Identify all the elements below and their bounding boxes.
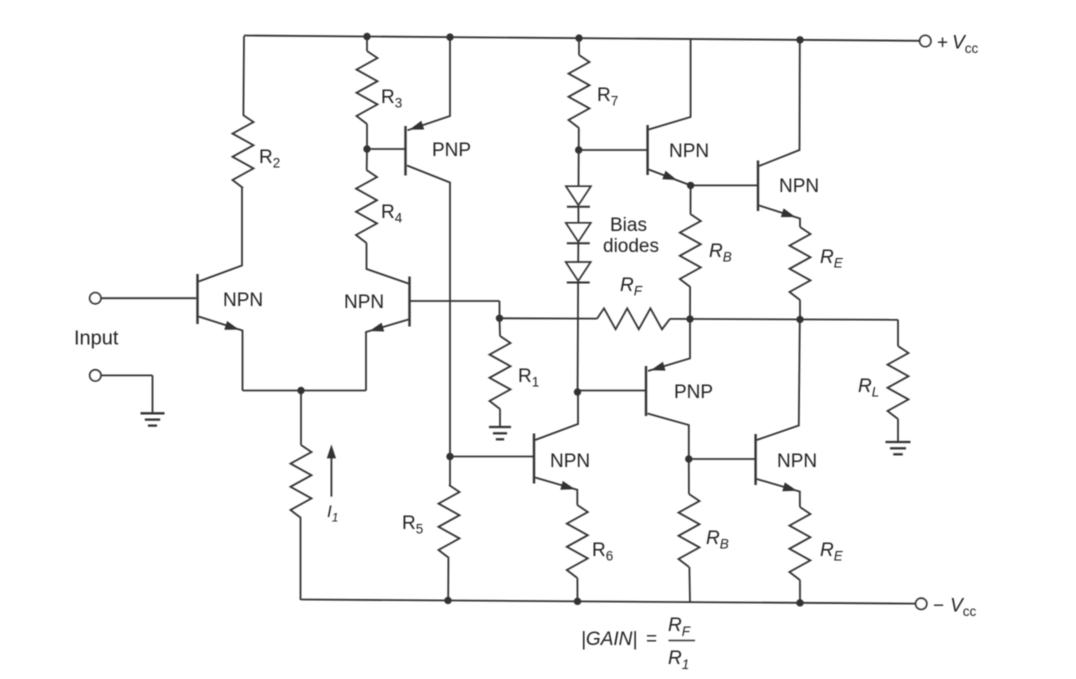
svg-text:Input: Input <box>74 328 119 350</box>
svg-text:diodes: diodes <box>603 236 659 257</box>
svg-text:NPN: NPN <box>669 141 709 162</box>
svg-text:NPN: NPN <box>779 176 819 197</box>
svg-text:NPN: NPN <box>550 451 590 472</box>
svg-text:NPN: NPN <box>777 451 817 472</box>
svg-text:NPN: NPN <box>223 290 263 311</box>
svg-text:PNP: PNP <box>432 140 471 161</box>
svg-text:=: = <box>646 629 657 650</box>
svg-text:|GAIN|: |GAIN| <box>581 629 637 650</box>
svg-text:Bias: Bias <box>610 215 647 236</box>
svg-text:PNP: PNP <box>674 382 713 403</box>
svg-text:NPN: NPN <box>344 292 384 313</box>
